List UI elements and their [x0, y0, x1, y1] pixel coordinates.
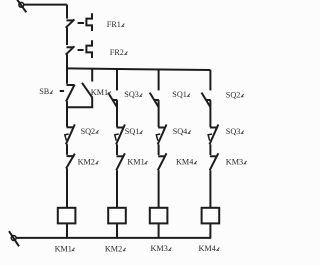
svg-text:KM2: KM2 — [78, 158, 95, 167]
svg-text:SQ3: SQ3 — [124, 90, 139, 99]
svg-text:KM4: KM4 — [199, 244, 216, 253]
svg-text:KM4: KM4 — [176, 158, 193, 167]
svg-text:FR1: FR1 — [107, 20, 121, 29]
svg-text:KM3: KM3 — [226, 158, 243, 167]
svg-text:SB: SB — [39, 87, 50, 96]
svg-text:SQ1: SQ1 — [172, 90, 187, 99]
svg-text:SQ3: SQ3 — [226, 127, 241, 136]
svg-text:SQ1: SQ1 — [125, 127, 140, 136]
svg-text:FR2: FR2 — [110, 48, 124, 57]
svg-text:KM2: KM2 — [105, 244, 122, 253]
svg-text:KM1: KM1 — [91, 88, 108, 97]
svg-text:KM1: KM1 — [127, 158, 144, 167]
svg-text:SQ4: SQ4 — [173, 127, 188, 136]
svg-text:KM3: KM3 — [151, 244, 168, 253]
svg-text:KM1: KM1 — [55, 244, 72, 253]
svg-text:SQ2: SQ2 — [81, 127, 96, 136]
svg-text:SQ2: SQ2 — [226, 91, 241, 100]
